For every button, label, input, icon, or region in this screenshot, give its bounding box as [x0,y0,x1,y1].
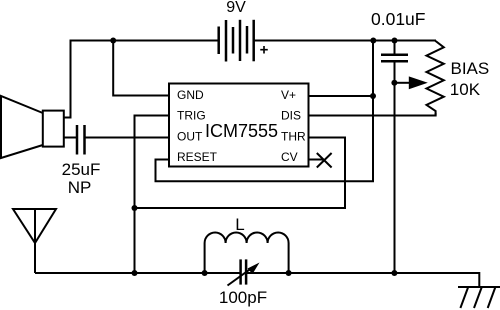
wire capacitor C1 to OUT pin [85,137,170,139]
capacitor C2 0.01uF plates [381,55,408,62]
wire top rail left (battery minus to left riser, down to speaker) [64,41,219,118]
svg-text:GND: GND [177,88,204,102]
wire CV stub [309,159,325,161]
no-connect X on CV [317,153,332,168]
potentiometer R1 zigzag [427,41,444,116]
node junction dot TRIG/bottom rail [132,270,138,276]
node junction dot on top rail (GND riser) [110,38,116,44]
svg-text:THR: THR [281,130,306,144]
wire TRIG pin to bottom rail [135,116,170,274]
svg-text:OUT: OUT [177,130,203,144]
wire cap riser upper [394,41,396,54]
svg-text:BIAS: BIAS [451,59,490,78]
variable capacitor arrow [228,268,253,286]
svg-text:ICM7555: ICM7555 [205,121,278,141]
svg-text:V+: V+ [281,88,296,102]
svg-text:RESET: RESET [177,150,218,164]
battery B1 9V [219,20,254,62]
wire bottom rail right [246,273,479,287]
node junction dot top rail / cap riser [392,38,398,44]
node junction dot bottom rail / cap riser [391,270,397,276]
svg-text:100pF: 100pF [219,288,267,307]
potentiometer wiper arrow [394,82,410,84]
wire THR loop to TRIG line [135,138,346,209]
svg-text:CV: CV [281,150,298,164]
wire V+ riser to top rail [372,41,374,97]
wire GND riser from top rail to IC GND pin [113,41,169,96]
svg-text:TRIG: TRIG [177,109,206,123]
wire cap riser lower to bottom rail [394,62,396,273]
wire top rail right (battery plus to potentiometer top) [254,40,436,42]
svg-text:25uF: 25uF [62,160,101,179]
wire speaker to capacitor C1 [64,137,77,139]
node junction dot V+ [370,93,376,99]
capacitor C1 25uF plates [77,125,85,155]
svg-text:10K: 10K [450,80,481,99]
speaker LS1 [1,96,64,158]
ground chassis symbol [458,286,500,288]
svg-text:NP: NP [68,178,92,197]
svg-text:L: L [235,215,244,234]
svg-text:+: + [260,42,269,59]
wire V+ pin to riser [309,95,374,97]
wire bottom rail left [35,272,241,274]
node junction dot wiper [391,80,397,86]
inductor L [205,233,289,273]
wire RESET loop to V+ [156,96,374,181]
op IC U1 ICM7555 box [169,84,309,167]
node junction dot bottom rail / inductor left [202,270,208,276]
node junction dot top rail / V+ riser [370,38,376,44]
node junction dot bottom rail / inductor right [286,270,292,276]
svg-text:DIS: DIS [281,109,301,123]
variable capacitor C3 100pF plates [241,259,247,284]
svg-text:9V: 9V [226,0,246,16]
svg-text:0.01uF: 0.01uF [371,9,425,29]
wire DIS pin to potentiometer bottom [309,113,436,116]
node junction dot TRIG/THR [132,205,138,211]
antenna ANT1 [13,209,56,273]
